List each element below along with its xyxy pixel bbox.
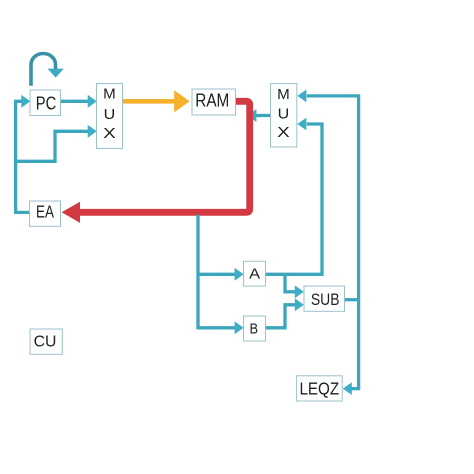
svg-text:U: U	[104, 106, 116, 123]
wire EA feedback rail (left)	[16, 101, 30, 212]
wire SUB output	[345, 298, 359, 301]
alu SUB	[304, 286, 345, 311]
register B	[244, 316, 266, 341]
arrow MUX2 output to RAM address node	[247, 109, 270, 122]
register PC	[30, 90, 61, 116]
svg-text:X: X	[103, 125, 116, 142]
yellow arrow MUX1 to RAM	[123, 90, 190, 112]
arrow into LEQZ	[343, 382, 352, 395]
mux MUX2	[271, 84, 297, 148]
svg-text:X: X	[277, 124, 290, 141]
svg-text:LEQZ: LEQZ	[299, 378, 339, 398]
svg-text:M: M	[277, 86, 290, 103]
register EA	[30, 201, 61, 226]
svg-text:EA: EA	[36, 201, 54, 221]
svg-text:U: U	[278, 106, 290, 123]
svg-text:PC: PC	[36, 92, 57, 113]
control unit CU	[30, 329, 62, 354]
wire B to SUB lower input	[266, 298, 304, 327]
arrow into A	[235, 268, 244, 281]
arrow into PC	[21, 95, 30, 108]
mux MUX1	[97, 84, 123, 149]
svg-text:SUB: SUB	[311, 290, 340, 309]
svg-text:CU: CU	[34, 334, 57, 351]
red wire RAM to EA	[62, 101, 250, 223]
svg-text:RAM: RAM	[195, 90, 229, 111]
svg-text:A: A	[249, 265, 260, 282]
wire A output up to MUX2 lower input	[266, 118, 323, 275]
wire rail branch to MUX1 lower input	[16, 125, 97, 161]
comparator LEQZ	[297, 376, 343, 401]
memory RAM	[192, 89, 236, 115]
loop arrow over PC	[31, 54, 64, 86]
arrow into MUX2 upper input	[297, 90, 306, 103]
svg-text:B: B	[250, 321, 259, 338]
wire A branch to SUB upper input	[285, 274, 304, 298]
svg-text:M: M	[103, 86, 116, 103]
wire PC to MUX1	[61, 95, 97, 108]
register A	[244, 261, 266, 286]
wire right rail SUB result to MUX2 and LEQZ	[307, 96, 359, 389]
wire data node down to A and B	[198, 215, 235, 328]
arrow into B	[235, 321, 244, 334]
